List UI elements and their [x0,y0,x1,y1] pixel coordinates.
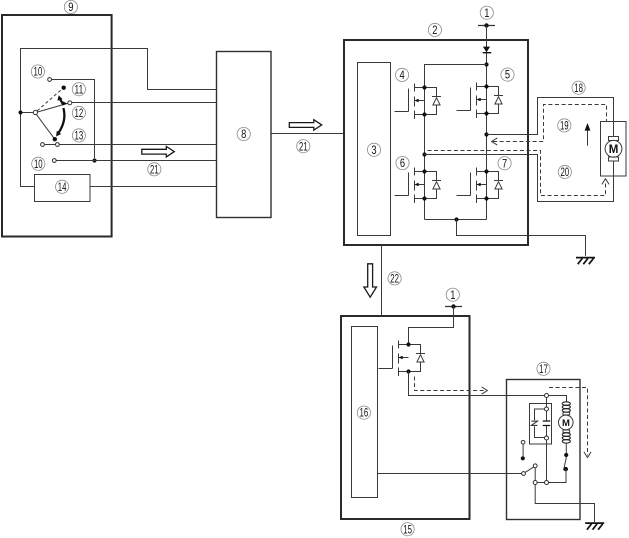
svg-text:8: 8 [241,129,246,141]
svg-text:13: 13 [75,131,84,143]
wire D contact 10 lower to block 8 [56,160,216,162]
block 2 wiper motor driver box [344,40,528,245]
park switch contact dots and blade [564,453,569,471]
box 16 rear driver IC [352,327,378,498]
label 21 right [297,140,310,154]
block 15 rear wiper driver box [341,316,470,519]
svg-text:20: 20 [560,167,569,179]
arrow 21 signal flow right [289,120,321,131]
label 4 [396,68,409,82]
label 1 bottom [446,288,459,302]
label 19 [558,119,571,133]
label 2 [428,23,441,37]
contact park pair left [521,441,525,461]
motor M rear wiper [559,412,574,432]
coil spring lower of rear motor [562,433,570,443]
label 1 top [480,6,493,20]
coil spring upper of rear motor [562,402,570,412]
svg-text:11: 11 [75,84,84,96]
box noise suppressor [530,404,552,445]
wire contact 10 upper to junction [52,80,95,159]
wire bottom row to ground [535,485,594,523]
wire power to rear FET drain [409,307,454,345]
suppressor vertical link with contacts [545,398,549,482]
capacitor C in suppressor [543,421,550,426]
switch body outline wire to block 8 pins A and E [21,49,217,187]
node left bridge midpoint [422,152,426,156]
svg-text:5: 5 [505,70,510,82]
label 5 [501,68,514,82]
wiper travel arrows up to 11 right to 12 down to 13 [56,95,67,136]
wire box 16 to relay wiper arm [378,473,522,475]
svg-text:16: 16 [360,408,369,420]
label 6 [396,156,409,170]
arrow 22 signal flow down [364,264,377,297]
wire left bridge vertical bus [424,88,426,220]
node right bridge midpoint [484,132,488,136]
svg-text:6: 6 [400,158,405,170]
label 9 [64,0,77,14]
svg-text:21: 21 [299,141,308,153]
wire block 8 output to block 2 [271,133,344,135]
dashed feedback path upper with left arrowhead [492,105,607,146]
wire arm contact down to bottom row [534,468,536,481]
label 16 [357,406,370,420]
wire bottom rail to ground [457,220,586,256]
label 20 [558,165,571,179]
label 7 [498,157,511,171]
label 11 [72,83,85,97]
svg-text:M: M [562,418,570,429]
label 10 lower [32,157,45,171]
box 17 rear wiper motor assembly [507,380,581,520]
svg-text:18: 18 [574,83,583,95]
label 14 [56,180,69,194]
contact 10 upper [48,78,52,82]
wire right midpoint to motor plus [487,98,614,135]
label 15 [401,523,414,537]
motor M front wiper [605,122,622,202]
node junction on wire D [92,158,96,162]
contact 10 lower [52,159,56,163]
box 14 illumination module [35,175,91,202]
switch common pivot contact [33,110,37,114]
label 22 [388,272,401,286]
wire C contact 13 to block 8 [59,144,216,146]
ground for block 2 [576,258,595,265]
svg-text:10: 10 [34,159,43,171]
wire left midpoint to motor minus [425,155,614,202]
label 12 [72,106,85,120]
transistor Q4 high-side left FET [395,84,442,120]
wire pivot to body edge with junction dot [19,111,34,115]
node top rail junction [484,62,488,66]
svg-text:15: 15 [403,524,412,536]
label 8 [237,127,250,141]
contact 12 [68,101,72,105]
node bottom row contacts [533,481,548,485]
transistor Q16 rear wiper FET [379,341,426,377]
transistor Q7 low-side right FET [457,168,504,204]
dashed rear feed path with right arrowhead [415,377,488,395]
svg-text:7: 7 [502,158,507,170]
contact 11 dot with dashed wiper position [37,86,66,111]
svg-text:9: 9 [68,2,73,14]
switch wiper arm at position 12 [38,103,68,112]
svg-text:M: M [609,144,619,156]
diode D1 reverse protection [483,47,492,53]
svg-text:21: 21 [150,164,159,176]
arrow rotation direction 19 [585,123,591,146]
dashed rear park feedback path with down arrowhead [549,388,591,458]
svg-text:17: 17 [539,364,548,376]
svg-text:14: 14 [58,182,67,194]
wire block 2 to block 15 [381,245,383,316]
label 13 [72,129,85,143]
label 17 [537,362,550,376]
svg-text:1: 1 [484,8,489,20]
wire bottom rail of bridge [425,219,487,221]
ground for block 17 [585,523,604,530]
box 18 front wiper motor outline [601,122,627,177]
svg-text:3: 3 [371,145,376,157]
transistor Q6 low-side left FET [395,168,442,204]
wire B contact 12 to block 8 [72,102,217,104]
svg-text:22: 22 [390,274,399,286]
arrow 21 signal flow left [142,146,175,157]
node bottom rail junction [454,217,458,221]
wire feed contact to rear motor branch [549,396,567,402]
node relay feed contact [545,394,549,398]
resistor R in suppressor [531,409,544,438]
wire park switch to bottom row [537,469,566,482]
svg-text:19: 19 [560,121,569,133]
power feed 1 bottom [445,304,462,308]
block 9 combination switch unit box [2,15,112,237]
contact 13 pair [41,143,60,147]
transistor Q5 high-side right FET [457,83,504,119]
wire top rail [425,65,487,88]
dashed feedback path lower [428,151,610,196]
wire rear FET source to relay feed contact [409,372,545,396]
box 3 driver IC [358,63,391,236]
svg-text:12: 12 [75,108,84,120]
label 21 left [148,163,161,177]
label 3 [367,143,380,157]
wire power feed vertical bus right [486,26,488,220]
power feed 1 top [478,23,495,27]
label 10 upper [31,65,44,79]
svg-text:4: 4 [400,70,406,82]
svg-text:10: 10 [34,67,43,79]
relay wiper arm [522,464,538,476]
svg-text:2: 2 [432,25,437,37]
wire rear motor to park switch [565,443,567,455]
svg-text:1: 1 [450,290,455,302]
wiper arm toward contact 13 [36,114,57,141]
label 18 [572,81,585,95]
block 8 control module box [217,52,272,218]
